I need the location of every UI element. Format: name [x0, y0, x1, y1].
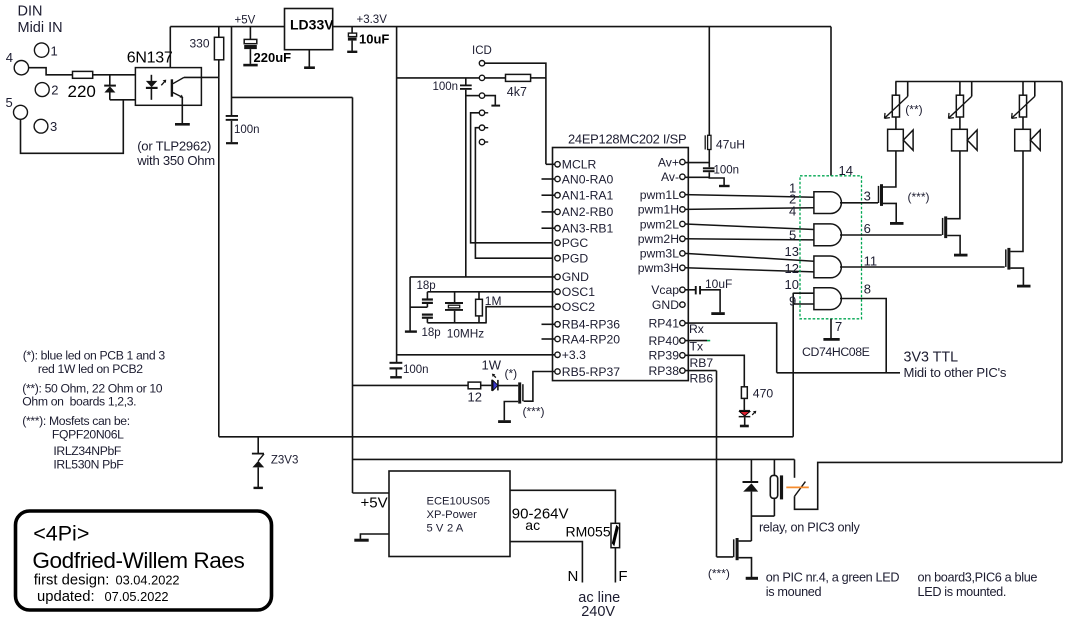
wire AND out8 midi thru [840, 299, 886, 373]
svg-text:(*): (*) [505, 367, 518, 381]
svg-text:Godfried-Willem Raes: Godfried-Willem Raes [32, 548, 244, 573]
wire caps midpoint to ground [410, 306, 427, 308]
ground Vcap [711, 312, 725, 315]
svg-text:47uH: 47uH [716, 138, 745, 152]
wire pwm3H to gate [685, 268, 814, 272]
svg-text:ICD: ICD [472, 45, 492, 57]
label green LED note [766, 571, 900, 600]
fuse RM055 [566, 523, 620, 547]
svg-text:100n: 100n [234, 124, 260, 136]
label first design date [34, 573, 180, 589]
svg-text:relay, on PIC3 only: relay, on PIC3 only [759, 521, 861, 535]
svg-text:Av-: Av- [661, 170, 679, 184]
svg-text:AN0-RA0: AN0-RA0 [562, 172, 614, 186]
wire RB6 to gate Q2 [717, 556, 734, 558]
wire GND pin to crystal ground rail [410, 276, 555, 278]
wire stub MCU left pin [542, 227, 555, 229]
svg-text:6: 6 [864, 221, 871, 236]
ground M1 [890, 222, 904, 225]
wire 3.3V to 47uH [708, 27, 710, 136]
svg-text:RM055: RM055 [566, 524, 611, 540]
svg-text:2: 2 [51, 83, 58, 98]
svg-text:on board3,PIC6 a blue: on board3,PIC6 a blue [918, 571, 1038, 585]
wire PSU ac top [510, 490, 615, 523]
svg-text:is mouned: is mouned [766, 585, 822, 599]
wire +5V branch down [231, 27, 233, 116]
MCU pin RA4-RP20 [555, 332, 620, 346]
wire ICD3 to ground [485, 96, 496, 105]
AND gate 3 [814, 256, 841, 278]
MCU pin RP38 [649, 364, 686, 378]
DIN pin 4 [6, 50, 29, 75]
ground M2 [954, 254, 968, 257]
svg-text:(or TLP2962): (or TLP2962) [137, 139, 211, 154]
svg-text:(***): (***) [908, 190, 930, 204]
svg-text:100n: 100n [433, 81, 459, 93]
svg-text:(**): (**) [905, 103, 922, 117]
wire fuse to F [614, 548, 616, 583]
resistor 330 pull-up [190, 27, 224, 78]
svg-text:red 1W led on PCB2: red 1W led on PCB2 [38, 362, 143, 376]
ICD pin 4 circle [479, 110, 488, 115]
wire branch y97 [232, 96, 353, 98]
wire diode to coil bottom [751, 515, 774, 517]
DIN pin 3 [34, 119, 57, 134]
label AND pin numbers left [785, 180, 799, 308]
MCU pin RB5-RP37 [555, 365, 620, 379]
MCU pin GND [555, 270, 589, 284]
relay switch [786, 459, 809, 496]
svg-text:pwm2H: pwm2H [638, 232, 679, 246]
svg-text:5: 5 [6, 95, 13, 110]
svg-text:+3.3: +3.3 [562, 348, 586, 362]
svg-text:100n: 100n [714, 165, 740, 177]
svg-text:OSC2: OSC2 [562, 300, 595, 314]
svg-text:2 A: 2 A [447, 523, 464, 535]
wire 10uF to ground [701, 290, 720, 313]
wire 6N137 cathode return [110, 99, 152, 101]
MCU pin pwm1H [638, 203, 685, 217]
wire 3.3V feed vertical [396, 27, 398, 362]
MCU pin RP40 [649, 334, 686, 348]
mosfet M1 [879, 184, 884, 206]
svg-text:CD74HC08E: CD74HC08E [802, 345, 870, 359]
mosfet Q2 relay driver [734, 538, 739, 560]
wire +5V to relay [353, 458, 795, 460]
wire AND in9-10 vertical [792, 293, 794, 437]
svg-text:14: 14 [839, 163, 853, 178]
wire midi out horizontal [777, 372, 900, 374]
svg-text:03.04.2022: 03.04.2022 [116, 573, 180, 588]
wire ICD1 to MCLR [485, 63, 546, 164]
wire pwm2H to gate [685, 239, 814, 240]
svg-text:PGC: PGC [562, 236, 589, 250]
svg-text:pwm1H: pwm1H [638, 203, 679, 217]
svg-text:4: 4 [6, 50, 13, 65]
svg-text:first design:: first design: [34, 573, 110, 589]
wire +5V net vertical to PSU [352, 97, 354, 493]
wire 47uH to Av+ [708, 150, 710, 168]
wire speaker2 to drain [947, 151, 960, 219]
label AND pin numbers right [864, 189, 878, 297]
MCU pin RB4-RP36 [555, 318, 620, 332]
capacitor 100n analog [703, 165, 739, 177]
wire pwm2L to gate [685, 224, 814, 230]
svg-text:18p: 18p [417, 280, 436, 292]
diode D1 reverse protection [104, 75, 116, 100]
svg-text:IRLZ34NPbF: IRLZ34NPbF [53, 444, 121, 458]
wire stub MCU left pin [542, 338, 555, 340]
zener Z3V3 [252, 437, 299, 488]
wire Q1 source to ground [504, 402, 518, 421]
svg-text:pwm2L: pwm2L [640, 217, 680, 231]
wire M3 source to ground [1010, 268, 1023, 285]
wire 4k7 to MCLR net [531, 77, 546, 79]
wire crystal bottom rail [427, 322, 486, 324]
svg-text:9: 9 [789, 293, 796, 308]
svg-text:pwm3H: pwm3H [638, 261, 679, 275]
svg-text:Tx: Tx [690, 340, 704, 354]
capacitor 18p lower [422, 314, 441, 340]
svg-text:MCLR: MCLR [562, 158, 597, 172]
svg-text:Ohm on boards 1,2,3.: Ohm on boards 1,2,3. [22, 395, 136, 409]
IC U3 CD74HC08E green box [800, 163, 870, 359]
wire RB5 to mosfet gate [524, 372, 555, 402]
wire bottom horizontal net [219, 436, 793, 438]
wire Av+ pin [685, 162, 709, 164]
ICD pin 2 circle [479, 75, 484, 80]
svg-text:ECE10US05: ECE10US05 [427, 496, 490, 508]
resistor 1M [476, 292, 502, 323]
relay coil [770, 459, 783, 516]
wire PSU ac bottom N [510, 542, 582, 583]
svg-text:<4Pi>: <4Pi> [33, 522, 89, 546]
wire +3.3 pin [397, 354, 555, 356]
svg-text:Midi IN: Midi IN [18, 20, 63, 36]
svg-text:1M: 1M [485, 294, 502, 308]
svg-text:GND: GND [652, 298, 679, 312]
MCU pin OSC2 [555, 300, 595, 314]
6N137 internal LED [146, 75, 158, 100]
ground 6N137 emitter [175, 123, 190, 126]
wire cap to Av- and ground [709, 172, 724, 185]
ground PSU [354, 539, 368, 542]
wire M1 source to ground [883, 203, 896, 222]
mosfet M3 [1006, 248, 1011, 270]
svg-text:13: 13 [785, 244, 799, 259]
wire pwm1H to gate [685, 208, 814, 210]
svg-text:(**): 50 Ohm, 22 Ohm or 10: (**): 50 Ohm, 22 Ohm or 10 [22, 382, 162, 396]
LED 1W blue [482, 358, 518, 391]
wire 6N137 emitter to ground [181, 97, 183, 124]
svg-text:+3.3V: +3.3V [357, 14, 388, 26]
wire stub MCU left pin [542, 178, 555, 180]
wire Av- pin [685, 176, 709, 178]
6N137 light arrow [161, 80, 166, 86]
svg-text:AN3-RB1: AN3-RB1 [562, 222, 614, 236]
wire stub MCU left pin [542, 194, 555, 196]
wire pot to speaker 3 [1022, 117, 1024, 129]
MCU pin GND [652, 298, 685, 312]
wire stub MCU left pin [542, 211, 555, 213]
svg-text:with 350 Ohm: with 350 Ohm [136, 153, 215, 168]
MCU pin pwm3H [638, 261, 685, 275]
svg-text:(*): blue led on PCB 1 and 3: (*): blue led on PCB 1 and 3 [23, 349, 166, 363]
wire +5V net to R12 [353, 384, 469, 386]
wire RP39 RB7 to 470 [685, 355, 744, 387]
svg-text:DIN: DIN [18, 4, 43, 20]
6N137 phototransistor [171, 77, 184, 98]
svg-text:100n: 100n [403, 364, 429, 376]
DIN pin 2 [35, 83, 58, 98]
MCU pin AN0-RA0 [555, 172, 614, 186]
wire DIN5 to cathode net [21, 100, 124, 154]
svg-text:N: N [568, 568, 579, 585]
wire pot to speaker 2 [959, 117, 961, 129]
capacitor 220uF [243, 27, 291, 66]
svg-text:pwm3L: pwm3L [640, 247, 680, 261]
wire +5V into PSU [353, 492, 390, 494]
ground M3 [1017, 285, 1031, 288]
svg-text:12: 12 [468, 390, 482, 405]
wire Q2 source to ground [739, 558, 752, 577]
wire M2 source to ground [947, 236, 960, 255]
label DIN Midi IN [18, 4, 63, 37]
svg-text:pwm1L: pwm1L [640, 188, 680, 202]
mosfet M2 [943, 216, 948, 238]
MCU U2 24EP128MC202 [553, 132, 689, 381]
svg-text:Vcap: Vcap [651, 283, 679, 297]
resistor 220 [68, 71, 96, 101]
ground LD33V [304, 50, 315, 68]
capacitor 100n ICD [433, 78, 472, 93]
wire ICD5 to PGD [475, 128, 555, 259]
svg-text:(***): Mosfets can be:: (***): Mosfets can be: [22, 414, 129, 428]
wire LED to mosfet Q1 [498, 385, 518, 387]
MCU pin AN1-RA1 [555, 189, 614, 203]
ICD pin 6 circle [479, 139, 488, 144]
svg-text:24EP128MC202 I/SP: 24EP128MC202 I/SP [568, 132, 686, 147]
MCU pin pwm2H [638, 232, 685, 246]
DIN pin 1 [34, 43, 57, 59]
wire Tx green tick [707, 340, 710, 342]
wire ICD3 left [466, 95, 480, 97]
resistor 4k7 [506, 74, 531, 99]
wire MCLR entry [546, 163, 555, 165]
wire speaker supply rail [895, 81, 1062, 83]
wire RP38 RB6 [685, 370, 716, 372]
ICD pin 5 circle [479, 125, 488, 130]
wire pot to speaker 1 [895, 117, 897, 129]
rheostat R speaker 3 [1012, 82, 1035, 119]
wire RP41 Rx [685, 323, 777, 373]
ground Q2 [746, 577, 758, 580]
wire +3.3V rail [333, 26, 831, 28]
svg-text:OSC1: OSC1 [562, 285, 595, 299]
svg-text:IRL530N PbF: IRL530N PbF [53, 458, 123, 472]
capacitor 18p upper [417, 280, 436, 307]
label ac line 240V [578, 590, 620, 620]
svg-text:90-264V: 90-264V [512, 506, 569, 523]
svg-text:240V: 240V [581, 604, 615, 620]
capacitor 10uF Vcap [685, 277, 732, 294]
MCU pin RP41 [649, 316, 686, 330]
wire RB6 vertical to relay mosfet [716, 371, 718, 557]
svg-text:Z3V3: Z3V3 [271, 455, 299, 467]
wire RP40 Tx [685, 340, 707, 342]
rheostat R speaker 2 [949, 82, 972, 119]
wire AND out11 to mosfet M3 [840, 266, 1005, 268]
wire long vertical from collector to bottom net [218, 77, 220, 436]
MCU pin pwm1L [640, 188, 685, 202]
speaker LS3 [1015, 129, 1040, 151]
speaker LS2 [952, 129, 978, 151]
label notes asterisks [22, 349, 165, 472]
capacitor 10uF 3.3V [347, 27, 389, 52]
svg-text:10uF: 10uF [705, 277, 732, 291]
svg-text:220: 220 [68, 82, 96, 101]
svg-text:3V3 TTL: 3V3 TTL [904, 350, 959, 366]
LED red [739, 398, 757, 425]
MCU pin Av- [661, 170, 685, 184]
svg-text:Av+: Av+ [658, 155, 679, 169]
inductor 47uH [705, 135, 745, 151]
AND gate 1 [814, 192, 842, 214]
wire OSC1 [427, 291, 554, 293]
wire AND out6 to mosfet M2 [840, 234, 942, 236]
wire R220 to 6N137 anode [93, 74, 152, 76]
svg-text:XP-Power: XP-Power [427, 509, 478, 521]
speaker LS1 [888, 129, 914, 151]
svg-text:PGD: PGD [562, 252, 589, 266]
svg-text:RP39: RP39 [649, 349, 680, 363]
ground analog [719, 185, 730, 187]
PSU ECE10US05 box [389, 471, 510, 557]
svg-text:(***): (***) [708, 567, 730, 581]
wire PSU ground [360, 534, 389, 539]
svg-text:AN2-RB0: AN2-RB0 [562, 205, 614, 219]
label blue LED note [918, 571, 1038, 600]
MCU pin RP39 [649, 349, 686, 363]
mosfet Q1 led driver [518, 382, 523, 403]
wire OSC2 [486, 307, 555, 323]
svg-text:AN1-RA1: AN1-RA1 [562, 189, 614, 203]
resistor 12 [468, 382, 482, 404]
svg-text:7: 7 [835, 319, 842, 334]
ground Q1 [498, 420, 511, 423]
wire AND gate4 input 10 [793, 292, 814, 294]
svg-text:RP38: RP38 [649, 364, 680, 378]
MCU pin PGC [555, 236, 589, 250]
ground LED red [740, 425, 749, 428]
svg-text:8: 8 [864, 282, 871, 297]
wire AND gate4 input 9 [793, 303, 814, 305]
svg-text:RA4-RP20: RA4-RP20 [562, 332, 620, 346]
wire R12 to LED [481, 384, 492, 386]
svg-text:LD33V: LD33V [290, 17, 334, 33]
wire pwm1L to gate [685, 195, 814, 198]
svg-text:RB5-RP37: RB5-RP37 [562, 365, 620, 379]
label 3V3 TTL midi out [904, 350, 1007, 381]
MCU pin pwm2L [640, 217, 685, 231]
AND gate 2 [814, 224, 842, 246]
svg-text:GND: GND [562, 270, 589, 284]
wire Q2 drain to relay [739, 540, 752, 542]
svg-text:4k7: 4k7 [507, 85, 527, 99]
wire AND pin7 ground [830, 319, 832, 338]
svg-text:Midi to other PIC's: Midi to other PIC's [904, 365, 1007, 380]
label TLP2962 alternative [136, 139, 215, 169]
svg-text:LED is mounted.: LED is mounted. [918, 585, 1007, 599]
svg-text:10: 10 [785, 277, 799, 292]
svg-text:1: 1 [51, 44, 58, 59]
crystal 10MHz [445, 292, 484, 341]
svg-text:RB4-RP36: RB4-RP36 [562, 318, 620, 332]
title box [16, 511, 272, 610]
svg-text:5: 5 [789, 228, 796, 243]
svg-text:(***): (***) [523, 405, 545, 419]
svg-text:RP40: RP40 [649, 334, 680, 348]
MCU pin MCLR [555, 158, 597, 172]
svg-text:ac: ac [525, 517, 540, 533]
DIN pin 5 [6, 95, 28, 119]
svg-text:10MHz: 10MHz [447, 327, 484, 341]
svg-text:07.05.2022: 07.05.2022 [105, 589, 169, 604]
svg-text:4: 4 [789, 204, 796, 219]
wire stub MCU left pin [542, 323, 555, 325]
MCU pin OSC1 [555, 285, 595, 299]
ground AND pin7 [823, 319, 842, 339]
svg-text:12: 12 [785, 261, 799, 276]
svg-text:6N137: 6N137 [127, 50, 173, 67]
svg-text:18p: 18p [422, 327, 441, 339]
svg-text:on PIC nr.4, a green LED: on PIC nr.4, a green LED [766, 571, 900, 585]
svg-text:3: 3 [864, 189, 871, 204]
wire DIN4 to R220 [29, 68, 73, 75]
wire speaker3 to drain [1010, 151, 1023, 252]
ground ICD3 [491, 105, 500, 107]
label 90-264V ac [512, 506, 569, 534]
MCU pin AN2-RB0 [555, 205, 614, 219]
label updated date [37, 589, 169, 605]
capacitor 100n at +3.3 pin [390, 362, 429, 378]
MCU pin Av+ [658, 155, 685, 169]
svg-text:F: F [618, 568, 627, 585]
wire 6N137 Vcc [169, 27, 171, 68]
wire 3.3V to ICD2 [397, 77, 480, 79]
AND gate 4 [814, 288, 841, 310]
rheostat R speaker 1 [885, 82, 908, 119]
svg-text:RB6: RB6 [690, 372, 714, 386]
MCU pin AN3-RB1 [555, 222, 614, 236]
wire 6N137 collector output [184, 76, 219, 78]
svg-text:220uF: 220uF [254, 50, 292, 65]
svg-text:FQPF20N06L: FQPF20N06L [52, 428, 124, 442]
wire right edge vertical [1061, 82, 1063, 463]
ICD pin 3 circle [479, 93, 484, 98]
svg-text:1W: 1W [482, 358, 502, 373]
capacitor 100n 5V rail [226, 115, 260, 143]
wire +5V rail [170, 26, 284, 28]
wire ICD2 to 4k7 [485, 77, 506, 79]
optocoupler U1 6N137 [127, 50, 202, 106]
svg-text:Rx: Rx [689, 322, 704, 336]
svg-text:+5V: +5V [361, 495, 388, 512]
wire speaker1 to drain [883, 151, 896, 187]
ICD pin 1 circle [479, 61, 484, 66]
svg-text:5 V: 5 V [427, 523, 444, 535]
regulator LD33V [285, 9, 335, 50]
